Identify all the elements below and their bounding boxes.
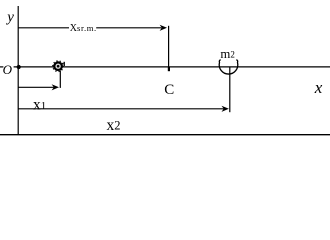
svg-text:C: C (164, 82, 174, 98)
node C tick below axis (168, 67, 170, 71)
y-axis (17, 6, 19, 135)
svg-text:x: x (314, 78, 323, 97)
mass m2 cup (219, 60, 238, 74)
bottom frame line (0, 134, 330, 136)
x-axis main (14, 66, 330, 68)
svg-text:x1: x1 (33, 96, 46, 113)
svg-text:y: y (5, 10, 14, 26)
x-axis left stub (0, 66, 3, 68)
node origin dot (17, 65, 21, 69)
arrowhead top arrow (160, 25, 167, 31)
label 1 (m1 tick) (63, 62, 65, 66)
wire x1 arrow (18, 86, 54, 88)
mass m1 gear body (53, 61, 64, 72)
svg-text:O: O (3, 62, 13, 77)
arrowhead x1 (52, 84, 59, 90)
svg-text:x2: x2 (107, 117, 121, 134)
wire top arrow right segment (96, 27, 161, 29)
wire top arrow left segment (18, 27, 69, 29)
arrowhead x2 (222, 106, 229, 112)
wire m1 hanger (59, 71, 61, 88)
wire x2 line (18, 108, 224, 110)
svg-text:Xsr.m.: Xsr.m. (70, 23, 97, 34)
wire m2 hanger (229, 67, 231, 112)
wire C vertical line (168, 26, 170, 67)
svg-text:m2: m2 (220, 47, 234, 61)
